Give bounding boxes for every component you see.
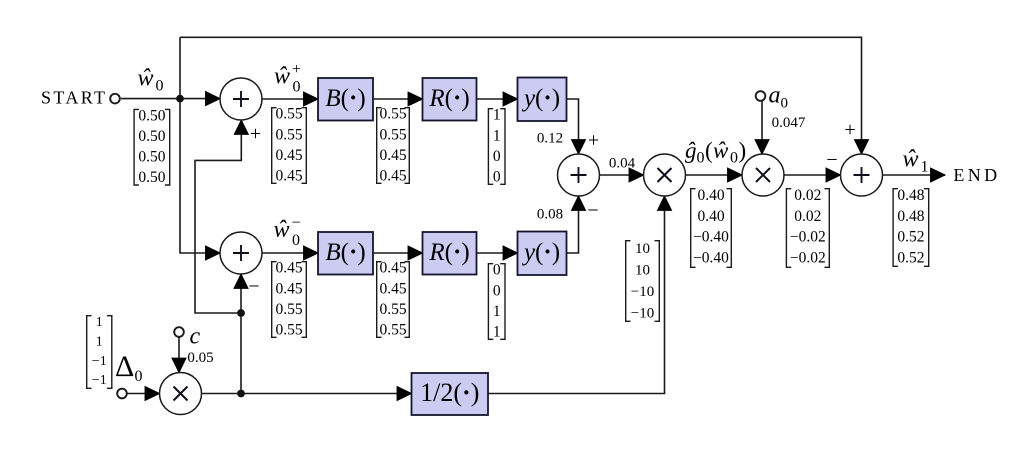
svg-text:0.50: 0.50 xyxy=(138,149,165,166)
svg-text:0: 0 xyxy=(292,232,300,249)
svg-text:0: 0 xyxy=(135,368,143,385)
svg-text:0: 0 xyxy=(697,150,705,167)
svg-text:END: END xyxy=(953,165,1000,185)
svg-text:START: START xyxy=(41,88,107,108)
svg-text:−: − xyxy=(587,200,598,222)
svg-text:0.50: 0.50 xyxy=(138,128,165,145)
svg-text:−: − xyxy=(248,276,259,298)
svg-text:0.45: 0.45 xyxy=(379,168,406,185)
svg-text:−1: −1 xyxy=(92,354,107,369)
svg-text:0.45: 0.45 xyxy=(275,168,302,185)
svg-text:0.12: 0.12 xyxy=(537,131,563,147)
svg-text:0.02: 0.02 xyxy=(794,187,821,204)
svg-text:0.48: 0.48 xyxy=(897,208,924,225)
svg-text:y(·): y(·) xyxy=(521,85,560,112)
svg-text:c: c xyxy=(190,324,201,350)
svg-text:−10: −10 xyxy=(631,306,654,322)
svg-text:1: 1 xyxy=(96,315,103,330)
svg-text:0.047: 0.047 xyxy=(772,115,806,131)
svg-text:10: 10 xyxy=(635,241,650,257)
svg-text:0: 0 xyxy=(156,78,164,95)
svg-text:B(·): B(·) xyxy=(325,85,365,112)
svg-text:0: 0 xyxy=(493,148,501,165)
svg-text:0.45: 0.45 xyxy=(275,260,302,277)
svg-text:−10: −10 xyxy=(631,284,654,300)
svg-text:0.55: 0.55 xyxy=(275,106,302,123)
svg-text:ŵ: ŵ xyxy=(274,217,290,243)
svg-text:0.48: 0.48 xyxy=(897,187,924,204)
svg-text:R(·): R(·) xyxy=(428,239,469,266)
svg-text:1/2(·): 1/2(·) xyxy=(420,378,479,407)
svg-text:0: 0 xyxy=(493,262,501,279)
svg-text:0.40: 0.40 xyxy=(697,187,724,204)
svg-text:0.55: 0.55 xyxy=(275,126,302,143)
svg-text:(: ( xyxy=(705,138,713,163)
svg-text:0.40: 0.40 xyxy=(697,208,724,225)
svg-text:−0.02: −0.02 xyxy=(790,249,826,266)
svg-text:0: 0 xyxy=(493,169,501,186)
svg-text:1: 1 xyxy=(493,303,501,320)
svg-text:ŵ: ŵ xyxy=(903,147,919,173)
svg-text:ŵ: ŵ xyxy=(713,138,729,163)
svg-text:−0.02: −0.02 xyxy=(790,229,826,246)
svg-text:0.45: 0.45 xyxy=(379,147,406,164)
svg-text:10: 10 xyxy=(635,263,650,279)
svg-text:1: 1 xyxy=(493,127,501,144)
svg-text:0.50: 0.50 xyxy=(138,169,165,186)
svg-text:Δ: Δ xyxy=(115,350,134,383)
svg-text:0.55: 0.55 xyxy=(379,126,406,143)
svg-text:0.45: 0.45 xyxy=(379,260,406,277)
svg-text:0.50: 0.50 xyxy=(138,107,165,124)
svg-text:−1: −1 xyxy=(92,373,107,388)
svg-text:0.45: 0.45 xyxy=(379,280,406,297)
svg-text:−0.40: −0.40 xyxy=(693,229,729,246)
svg-text:0: 0 xyxy=(730,150,738,167)
svg-text:0.08: 0.08 xyxy=(537,207,563,223)
svg-text:): ) xyxy=(739,138,747,163)
svg-text:+: + xyxy=(588,130,599,152)
svg-text:−: − xyxy=(826,149,837,171)
svg-text:0.04: 0.04 xyxy=(609,156,636,172)
svg-text:0.55: 0.55 xyxy=(379,106,406,123)
svg-text:−0.40: −0.40 xyxy=(693,249,729,266)
svg-text:0.02: 0.02 xyxy=(794,208,821,225)
svg-text:1: 1 xyxy=(96,334,103,349)
svg-text:0: 0 xyxy=(781,96,789,112)
svg-text:1: 1 xyxy=(921,159,929,176)
svg-text:B(·): B(·) xyxy=(325,239,365,266)
svg-text:R(·): R(·) xyxy=(428,85,469,112)
svg-text:0.55: 0.55 xyxy=(275,322,302,339)
svg-text:0.45: 0.45 xyxy=(275,280,302,297)
svg-text:+: + xyxy=(292,61,301,78)
svg-text:0.55: 0.55 xyxy=(379,322,406,339)
svg-text:ŵ: ŵ xyxy=(138,66,154,92)
svg-text:ĝ: ĝ xyxy=(685,138,697,163)
svg-text:0.52: 0.52 xyxy=(897,229,924,246)
svg-text:0.05: 0.05 xyxy=(187,350,213,366)
svg-text:+: + xyxy=(844,119,855,141)
svg-text:0.45: 0.45 xyxy=(275,147,302,164)
svg-text:a: a xyxy=(769,83,781,109)
svg-text:1: 1 xyxy=(493,107,501,124)
svg-text:0: 0 xyxy=(493,282,501,299)
svg-text:0.52: 0.52 xyxy=(897,249,924,266)
svg-text:y(·): y(·) xyxy=(521,239,560,266)
svg-text:0: 0 xyxy=(293,79,301,96)
svg-text:0.55: 0.55 xyxy=(275,301,302,318)
svg-text:−: − xyxy=(292,215,301,232)
svg-text:+: + xyxy=(250,123,261,145)
svg-text:1: 1 xyxy=(493,324,501,341)
svg-text:0.55: 0.55 xyxy=(379,301,406,318)
svg-text:ŵ: ŵ xyxy=(274,64,290,90)
